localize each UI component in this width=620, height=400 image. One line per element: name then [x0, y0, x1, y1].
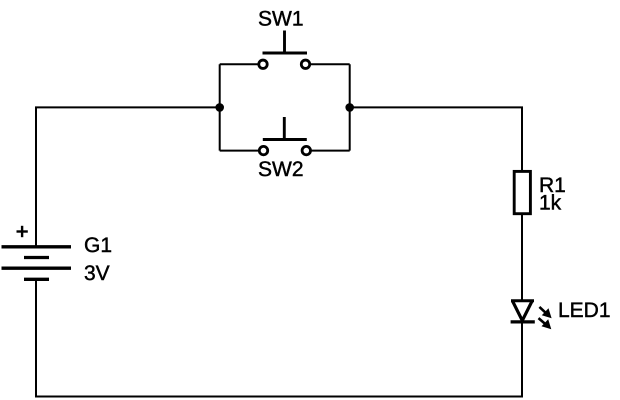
svg-text:LED1: LED1 — [558, 299, 611, 322]
svg-text:G1: G1 — [84, 234, 112, 257]
svg-text:SW1: SW1 — [258, 7, 304, 30]
svg-text:3V: 3V — [84, 262, 110, 285]
svg-text:SW2: SW2 — [258, 158, 304, 181]
svg-text:1k: 1k — [539, 192, 562, 215]
